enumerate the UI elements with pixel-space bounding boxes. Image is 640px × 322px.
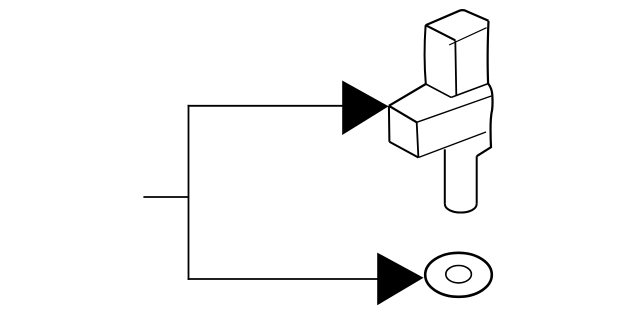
sensor connector: seam line	[449, 28, 487, 45]
sensor probe: bottom arc	[445, 204, 477, 213]
sensor connector: left vertical edge	[425, 25, 426, 84]
washer outer ellipse	[425, 253, 492, 297]
sensor body: front bottom edge (H to G)	[418, 132, 486, 158]
sensor body: right side profile	[477, 84, 493, 157]
arrowhead to sensor	[342, 81, 388, 136]
leader bottom horizontal line	[188, 278, 379, 280]
sensor connector: right vertical edge	[487, 21, 490, 84]
sensor body: front-left vertical edge (F to H)	[417, 122, 419, 157]
sensor connector: front vertical edge	[455, 41, 456, 96]
sensor body: front ridge (F to E)	[417, 96, 492, 122]
sensor probe: right edge	[476, 156, 478, 203]
sensor connector: top face	[426, 10, 489, 25]
arrowhead to washer	[377, 253, 423, 306]
sensor body: top outline V left branch (B to V1)	[426, 84, 451, 97]
sensor probe: left edge	[444, 149, 446, 203]
washer inner ellipse	[446, 266, 472, 283]
sensor body: top outline V right branch (V1 to C)	[451, 84, 488, 98]
sensor connector: top-left to front corner edge	[426, 25, 456, 40]
leader stub line	[143, 196, 188, 198]
sensor body: top-left edge (A to B)	[389, 84, 426, 106]
sensor body: left vertical edge (A to A2)	[388, 106, 391, 142]
sensor body: bottom-left edge (A2 to H)	[389, 142, 418, 158]
leader vertical line	[188, 105, 190, 280]
leader top horizontal line	[188, 105, 344, 107]
sensor body: left face top edge (A to F)	[389, 106, 417, 123]
